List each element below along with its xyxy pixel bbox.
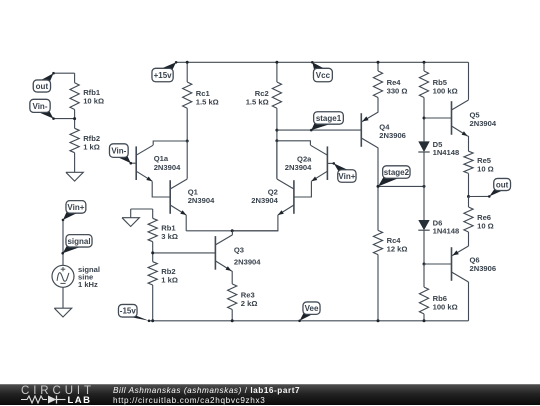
svg-text:2N3904: 2N3904 xyxy=(285,163,312,172)
svg-text:out: out xyxy=(496,180,509,189)
svg-text:2N3904: 2N3904 xyxy=(188,196,215,205)
svg-text:signal: signal xyxy=(67,237,90,246)
svg-text:10 Ω: 10 Ω xyxy=(477,165,494,174)
svg-text:1N4148: 1N4148 xyxy=(433,148,460,157)
svg-text:out: out xyxy=(36,82,49,91)
svg-text:330 Ω: 330 Ω xyxy=(387,86,408,95)
svg-text:Vin-: Vin- xyxy=(111,147,126,156)
svg-text:Q3: Q3 xyxy=(234,246,244,255)
svg-text:2N3906: 2N3906 xyxy=(470,264,497,273)
svg-text:10 kΩ: 10 kΩ xyxy=(83,96,104,105)
svg-text:10 Ω: 10 Ω xyxy=(477,222,494,231)
svg-text:1 kΩ: 1 kΩ xyxy=(83,143,100,152)
svg-text:1 kHz: 1 kHz xyxy=(78,280,98,289)
svg-text:3 kΩ: 3 kΩ xyxy=(161,232,178,241)
svg-text:100 kΩ: 100 kΩ xyxy=(433,86,458,95)
svg-text:Vin-: Vin- xyxy=(33,102,48,111)
svg-text:2 kΩ: 2 kΩ xyxy=(241,299,258,308)
svg-text:Vin+: Vin+ xyxy=(67,203,84,212)
svg-text:2N3904: 2N3904 xyxy=(251,196,278,205)
svg-text:100 kΩ: 100 kΩ xyxy=(433,303,458,312)
svg-text:2N3904: 2N3904 xyxy=(470,119,497,128)
svg-text:Vee: Vee xyxy=(305,304,319,313)
svg-text:1.5 kΩ: 1.5 kΩ xyxy=(246,97,269,106)
svg-text:stage2: stage2 xyxy=(384,168,410,177)
svg-text:-15v: -15v xyxy=(120,307,137,316)
svg-text:2N3904: 2N3904 xyxy=(234,257,261,266)
svg-text:Vcc: Vcc xyxy=(316,71,331,80)
svg-text:stage1: stage1 xyxy=(316,114,342,123)
svg-text:12 kΩ: 12 kΩ xyxy=(387,245,408,254)
svg-text:2N3904: 2N3904 xyxy=(154,163,181,172)
svg-text:1 kΩ: 1 kΩ xyxy=(161,276,178,285)
svg-text:2N3906: 2N3906 xyxy=(379,131,406,140)
svg-text:Vin+: Vin+ xyxy=(338,172,355,181)
svg-text:1N4148: 1N4148 xyxy=(433,226,460,235)
svg-text:Q1a: Q1a xyxy=(154,154,169,163)
svg-text:1.5 kΩ: 1.5 kΩ xyxy=(196,97,219,106)
svg-text:+15v: +15v xyxy=(154,71,173,80)
